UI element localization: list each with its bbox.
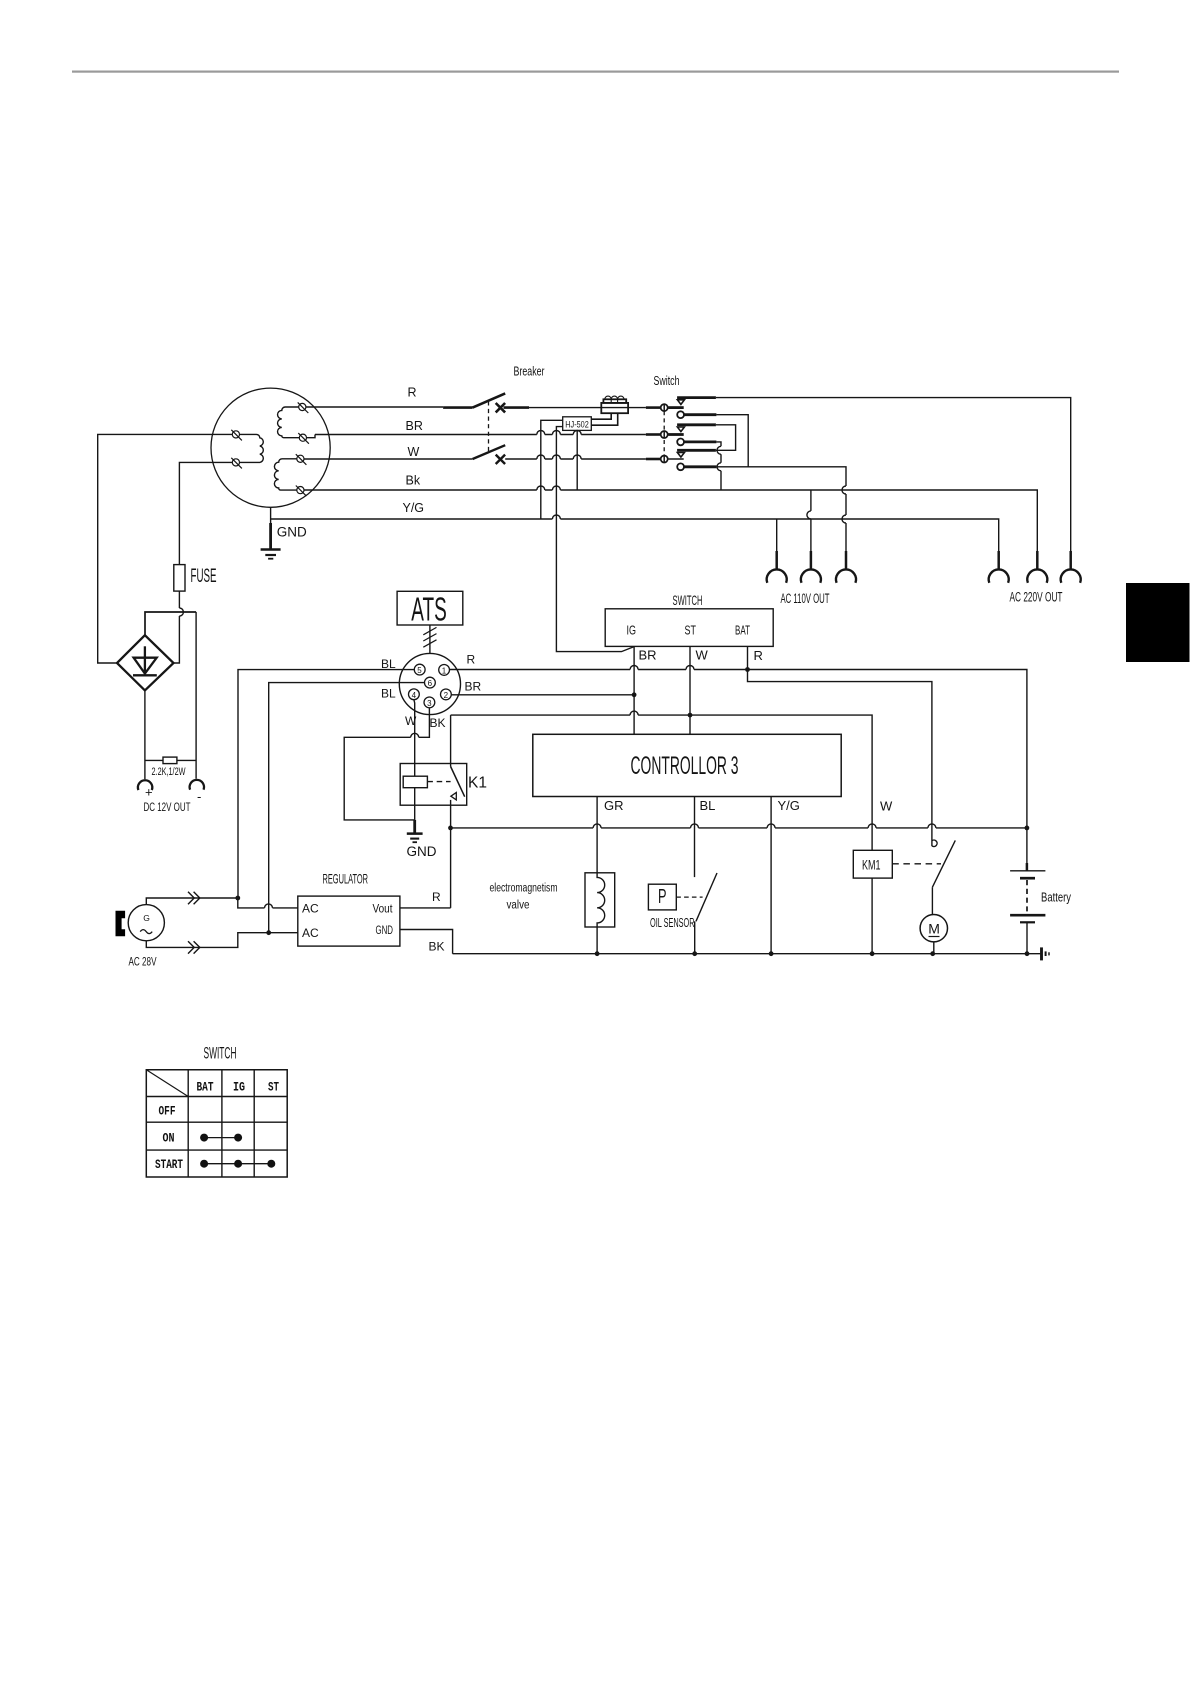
wire BR bbox=[315, 434, 646, 436]
svg-text:2: 2 bbox=[444, 691, 449, 700]
controller box CONTROLLOR 3 bbox=[533, 734, 841, 796]
svg-text:M: M bbox=[928, 921, 940, 937]
svg-text:W: W bbox=[408, 445, 420, 459]
HJ-502 bottom pin wire to Bk bbox=[576, 430, 578, 490]
svg-text:ON: ON bbox=[163, 1131, 175, 1146]
table diagonal bbox=[146, 1070, 188, 1097]
R bus line (battery +) bbox=[450, 670, 1027, 864]
wire BL pin6 bbox=[269, 683, 425, 933]
connector pin 2 bbox=[441, 689, 452, 700]
svg-text:Y/G: Y/G bbox=[403, 501, 425, 515]
svg-text:R: R bbox=[467, 653, 476, 667]
AC 28V source bbox=[116, 905, 165, 969]
svg-text:+: + bbox=[145, 785, 153, 800]
svg-text:BR: BR bbox=[639, 648, 657, 663]
current transformer on R line bbox=[592, 396, 629, 425]
motor circle bbox=[920, 915, 947, 942]
svg-text:6: 6 bbox=[428, 679, 433, 688]
switch contact C3 bbox=[677, 463, 684, 470]
starter contact blade bbox=[932, 840, 955, 887]
DC 12V OUT terminals bbox=[138, 780, 204, 814]
HJ-502 pin2 wire to switch IG bbox=[556, 427, 634, 652]
wire rectifier top link bbox=[145, 612, 196, 635]
CT secondary leads to HJ-502 bbox=[592, 413, 612, 419]
key switch table bbox=[146, 1044, 287, 1178]
table ON row contacts bbox=[204, 1137, 238, 1139]
node BAT junction bbox=[745, 667, 750, 672]
svg-text:W: W bbox=[696, 648, 709, 663]
switch pole BR bbox=[646, 433, 660, 436]
svg-text:BAT: BAT bbox=[197, 1080, 214, 1095]
wire generator to fuse bbox=[179, 462, 232, 564]
svg-text:R: R bbox=[432, 890, 441, 904]
connector pin 1 bbox=[439, 665, 450, 676]
svg-text:ST: ST bbox=[685, 623, 697, 638]
svg-text:Battery: Battery bbox=[1041, 891, 1072, 905]
connector pin 3 bbox=[424, 697, 435, 708]
chassis ground bars bbox=[1040, 947, 1043, 960]
AC220 terminal 2 bbox=[1036, 551, 1039, 570]
svg-text:CONTROLLOR 3: CONTROLLOR 3 bbox=[631, 752, 739, 780]
generator charge winding bbox=[231, 430, 263, 469]
svg-text:BR: BR bbox=[465, 680, 482, 694]
wire Bk bbox=[304, 490, 1038, 569]
electromagnetism valve bbox=[490, 873, 615, 954]
connector pin 6 bbox=[425, 677, 436, 688]
breaker bbox=[443, 364, 646, 465]
svg-text:K1: K1 bbox=[468, 775, 487, 792]
wire rectifier to DC- bbox=[195, 612, 197, 779]
wire rectifier to DC+ bbox=[144, 690, 146, 779]
svg-text:BK: BK bbox=[429, 940, 445, 954]
node K1 output junction bbox=[448, 826, 453, 831]
svg-text:AC 220V OUT: AC 220V OUT bbox=[1010, 590, 1063, 605]
svg-text:GND: GND bbox=[277, 525, 307, 540]
svg-text:5: 5 bbox=[417, 666, 422, 675]
svg-text:1: 1 bbox=[442, 667, 447, 676]
svg-text:BL: BL bbox=[381, 687, 396, 701]
svg-text:P: P bbox=[658, 886, 667, 908]
AC220 terminal 3 bbox=[1069, 551, 1072, 570]
generator main winding A bbox=[278, 402, 315, 443]
svg-text:KM1: KM1 bbox=[862, 858, 881, 873]
wire BK pin3 bbox=[344, 708, 429, 820]
wire ATS BR to IG bbox=[451, 694, 634, 696]
ground bus (BK) bbox=[453, 953, 1041, 955]
switch contact T1 bbox=[677, 396, 716, 399]
ATS connector bbox=[399, 653, 460, 714]
svg-text:Bk: Bk bbox=[406, 474, 421, 488]
AC110 terminal 3 bbox=[845, 551, 848, 570]
svg-text:BAT: BAT bbox=[735, 623, 750, 638]
svg-text:BL: BL bbox=[700, 798, 716, 813]
svg-text:Switch: Switch bbox=[654, 373, 680, 388]
AC28V source circle bbox=[128, 905, 164, 941]
wire Vout (R) bbox=[400, 907, 451, 909]
HJ-502 box bbox=[563, 417, 592, 431]
svg-text:ST: ST bbox=[268, 1080, 279, 1095]
generator ground GND bbox=[261, 507, 307, 558]
svg-text:Y/G: Y/G bbox=[778, 798, 800, 813]
svg-text:REGULATOR: REGULATOR bbox=[323, 871, 369, 887]
DC12V + terminal bbox=[138, 780, 152, 790]
ground (K1 coil) bbox=[407, 820, 437, 859]
svg-text:AC 28V: AC 28V bbox=[129, 955, 157, 969]
svg-text:3: 3 bbox=[427, 699, 432, 708]
AC110 terminal 1 lead bbox=[776, 519, 778, 552]
resistor 2.2K,1/2W bbox=[145, 757, 196, 778]
breaker pole 1 (R line) bbox=[443, 406, 473, 409]
AC 220V socket bbox=[989, 551, 1081, 605]
K1 actuating dashed link bbox=[427, 781, 450, 783]
svg-text:ATS: ATS bbox=[411, 591, 447, 628]
motor M bbox=[920, 915, 947, 954]
svg-text:G: G bbox=[143, 913, 150, 923]
wire R bbox=[306, 406, 443, 408]
svg-text:FUSE: FUSE bbox=[191, 566, 217, 587]
table START row contacts bbox=[204, 1163, 271, 1165]
connector pin 5 bbox=[414, 664, 425, 675]
battery cells dashed bbox=[1026, 880, 1028, 911]
rotary switch (output selector) bbox=[646, 373, 1071, 569]
battery plate 2- bbox=[1020, 921, 1035, 923]
wire BAT (R) bbox=[747, 646, 749, 669]
svg-text:OFF: OFF bbox=[159, 1104, 176, 1119]
svg-text:Vout: Vout bbox=[373, 904, 394, 916]
starter contact hook bbox=[932, 840, 937, 846]
svg-text:2.2K,1/2W: 2.2K,1/2W bbox=[152, 766, 186, 778]
wire W pin4 bbox=[413, 700, 416, 777]
switch contact C2 bbox=[677, 439, 684, 446]
relay K1 bbox=[400, 715, 487, 908]
svg-text:GR: GR bbox=[604, 798, 624, 813]
connector pin 4 bbox=[409, 689, 420, 700]
oil sensor dashed link bbox=[676, 896, 702, 898]
chevron connector marks top bbox=[188, 892, 200, 904]
CT coil loops bbox=[605, 396, 624, 399]
fuse F1 bbox=[174, 565, 217, 663]
svg-text:-: - bbox=[197, 789, 201, 804]
svg-text:IG: IG bbox=[233, 1080, 245, 1095]
svg-text:BK: BK bbox=[430, 716, 446, 730]
battery plate + bbox=[1010, 870, 1045, 872]
CT core box bbox=[603, 399, 626, 403]
svg-text:GND: GND bbox=[407, 844, 437, 859]
generator G1 bbox=[211, 388, 330, 507]
oil sensor P bbox=[648, 873, 717, 954]
svg-text:BL: BL bbox=[381, 657, 396, 671]
ATS box bbox=[397, 591, 463, 628]
wire Y/G bbox=[770, 797, 772, 954]
wire generator to rectifier bbox=[98, 434, 233, 663]
breaker gang dashed link bbox=[488, 401, 490, 451]
table grid bbox=[146, 1070, 287, 1177]
svg-text:AC: AC bbox=[302, 902, 319, 916]
wire to starter contactor bbox=[748, 670, 932, 847]
DC12V - terminal bbox=[190, 780, 204, 790]
valve coil bbox=[597, 873, 605, 927]
chassis ground (battery -) bbox=[1042, 947, 1050, 960]
switch contact T2 bbox=[677, 423, 716, 426]
AC220 terminal 1 bbox=[997, 551, 1000, 570]
wire W bbox=[304, 458, 646, 460]
K1 coil bbox=[403, 776, 427, 788]
wire C3 to AC110 bbox=[716, 467, 846, 570]
contactor KM1 bbox=[853, 850, 941, 953]
svg-text:Breaker: Breaker bbox=[514, 364, 545, 379]
wire AC top with chevron bbox=[146, 898, 297, 908]
chevron connector marks bottom bbox=[188, 941, 200, 953]
switch pole W bbox=[646, 458, 660, 461]
svg-text:R: R bbox=[754, 648, 763, 663]
AC110 terminal 2 lead bbox=[810, 490, 812, 552]
AC28V plug bracket bbox=[116, 911, 126, 937]
switch contact T3 bbox=[677, 449, 716, 452]
svg-text:4: 4 bbox=[412, 691, 417, 700]
wire C2 to Bk bbox=[716, 442, 721, 490]
svg-text:IG: IG bbox=[627, 623, 637, 638]
svg-text:SWITCH: SWITCH bbox=[673, 592, 703, 608]
wire IG (BR) bbox=[633, 646, 635, 734]
svg-text:AC: AC bbox=[302, 926, 319, 940]
HJ-502 pin1 wire to Y/G bbox=[541, 420, 563, 519]
svg-text:HJ-502: HJ-502 bbox=[565, 419, 589, 429]
svg-text:R: R bbox=[408, 386, 417, 400]
AC 110V socket bbox=[767, 490, 856, 606]
wire K1/ST/KM1 link bbox=[451, 715, 872, 850]
switch contact C1 bbox=[677, 411, 684, 418]
svg-text:BR: BR bbox=[406, 419, 423, 433]
svg-text:GND: GND bbox=[376, 925, 394, 937]
svg-text:START: START bbox=[155, 1157, 183, 1172]
wire K1 to battery + bbox=[451, 827, 1027, 829]
KM1 actuating dashed link bbox=[892, 863, 941, 865]
svg-text:SWITCH: SWITCH bbox=[204, 1044, 237, 1063]
ATS cable with slashes bbox=[423, 625, 436, 653]
wire K1 to Vout (R) bbox=[450, 800, 452, 908]
svg-text:DC 12V OUT: DC 12V OUT bbox=[144, 800, 191, 814]
generator main winding B bbox=[274, 454, 306, 496]
wire BL pin5 bbox=[238, 670, 414, 898]
svg-text:AC 110V OUT: AC 110V OUT bbox=[781, 591, 830, 606]
breaker X mark pole 2 bbox=[496, 455, 505, 464]
switch gang dashed link bbox=[663, 404, 665, 463]
breaker X mark pole 1 bbox=[496, 403, 505, 412]
K1 contact bbox=[450, 715, 452, 766]
battery plate 2+ bbox=[1010, 914, 1045, 917]
regulator bbox=[298, 871, 400, 947]
bridge rectifier bbox=[117, 635, 174, 690]
wire T1 to AC220 bbox=[716, 398, 1071, 570]
wire ST (W) bbox=[689, 646, 691, 734]
wire C1 down bbox=[716, 415, 748, 467]
svg-text:OIL SENSOR: OIL SENSOR bbox=[650, 915, 695, 930]
battery bbox=[1010, 863, 1071, 954]
breaker pole 2 (W line) bbox=[473, 445, 506, 459]
battery + lead bbox=[1026, 863, 1029, 871]
wire KM1 to ground bus bbox=[871, 878, 873, 954]
wire GR bbox=[596, 797, 598, 873]
wire Y/G bbox=[271, 519, 999, 569]
wire T2-T3 bracket bbox=[716, 425, 736, 451]
switch pole R bbox=[646, 406, 660, 409]
wire AC bottom with chevron bbox=[146, 933, 297, 948]
wire BL bbox=[694, 797, 696, 878]
wire GND (BK) bbox=[400, 930, 453, 954]
svg-text:electromagnetism: electromagnetism bbox=[490, 883, 558, 895]
svg-text:W: W bbox=[880, 799, 893, 814]
oil sensor switch blade bbox=[696, 873, 717, 921]
svg-text:W: W bbox=[405, 714, 417, 728]
key switch box SWITCH bbox=[605, 592, 773, 646]
battery plate - bbox=[1020, 877, 1035, 880]
svg-text:valve: valve bbox=[507, 900, 530, 912]
